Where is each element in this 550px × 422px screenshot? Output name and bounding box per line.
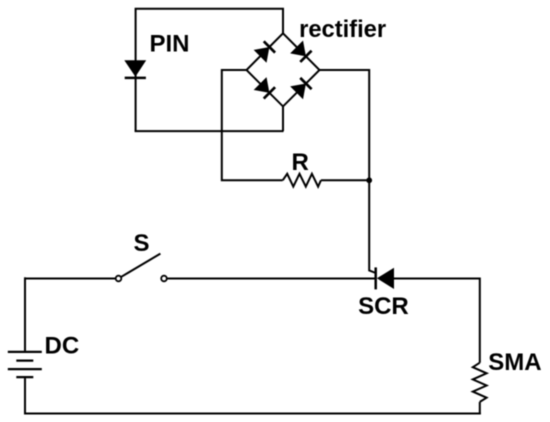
diode D1 upper-left xyxy=(254,41,276,63)
diode D3 lower-left xyxy=(254,77,276,99)
SCR Q1 xyxy=(376,267,394,289)
wire R to junction xyxy=(321,179,369,181)
diode D4 lower-right xyxy=(290,77,312,99)
diode D2 upper-right xyxy=(290,41,312,63)
svg-text:rectifier: rectifier xyxy=(299,16,386,43)
wire PIN top loop xyxy=(136,9,283,131)
svg-text:R: R xyxy=(292,149,309,176)
resistor R xyxy=(283,174,321,187)
svg-text:PIN: PIN xyxy=(150,30,190,57)
wire bridge left corner down xyxy=(222,70,283,180)
wire bridge right corner down xyxy=(320,70,370,180)
wire PIN bottom xyxy=(135,130,284,132)
wire main left xyxy=(24,278,116,280)
svg-text:S: S xyxy=(134,230,150,257)
rectifier bridge diamond xyxy=(247,33,320,106)
wire DC bottom xyxy=(24,378,26,413)
svg-text:SMA: SMA xyxy=(488,349,541,376)
wire SCR gate xyxy=(369,180,376,273)
wire bottom xyxy=(24,413,481,415)
switch S xyxy=(116,254,167,282)
battery DC xyxy=(8,352,42,377)
resistor SMA xyxy=(473,363,487,402)
wire DC top xyxy=(24,277,26,351)
wire SMA bottom stub xyxy=(479,402,481,415)
wire bridge bottom stub xyxy=(282,106,284,131)
node junction dot xyxy=(366,177,372,183)
svg-text:DC: DC xyxy=(45,332,80,359)
svg-text:SCR: SCR xyxy=(358,293,409,320)
wire SCR to right corner xyxy=(394,279,480,363)
diode PIN xyxy=(124,60,146,78)
wire switch to SCR xyxy=(167,278,376,280)
